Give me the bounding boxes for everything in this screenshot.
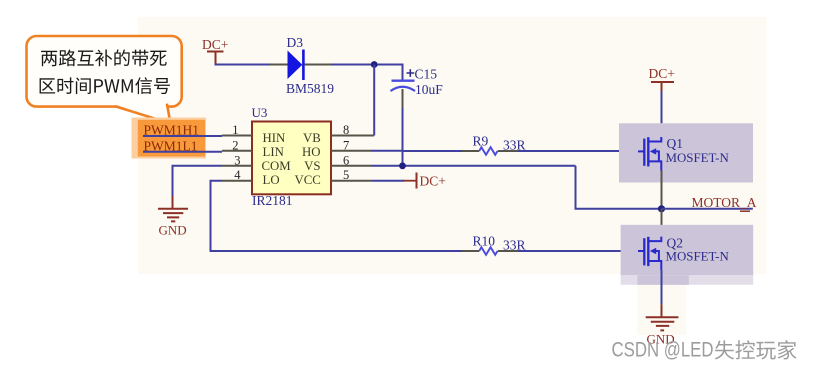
svg-text:2: 2: [232, 138, 238, 152]
U3 pin 6 VS: [304, 153, 371, 173]
svg-text:MOSFET-N: MOSFET-N: [666, 249, 730, 263]
wire: MOTOR_A net stub: [662, 209, 753, 211]
ground GND (below Q2): [646, 304, 679, 346]
svg-text:IR2181: IR2181: [252, 193, 293, 208]
net label MOTOR_A: [692, 195, 757, 210]
U3 pin 3 COM: [222, 153, 291, 173]
wire: R10 to Q2 gate: [498, 250, 638, 252]
designator label C15: [415, 67, 438, 82]
designator label Q1: [667, 136, 684, 151]
designator label Q2: [667, 235, 684, 250]
junction dot at C15/VS node: [399, 162, 406, 169]
resistor R9: [479, 147, 497, 155]
U3 pin 4 LO: [222, 168, 280, 187]
watermark CSDN @LED失控玩家: [612, 339, 797, 362]
transistor Q1 MOSFET-N symbol: [638, 137, 661, 171]
svg-text:BM5819: BM5819: [286, 81, 334, 96]
U3 pin 2 LIN: [222, 138, 284, 159]
svg-text:4: 4: [234, 168, 241, 182]
svg-text:DC+: DC+: [420, 174, 446, 189]
svg-text:7: 7: [343, 138, 349, 152]
transistor Q2 highlight box: [621, 225, 754, 285]
svg-text:3: 3: [234, 153, 240, 167]
svg-text:HIN: HIN: [263, 131, 286, 145]
svg-text:Q2: Q2: [667, 235, 684, 250]
designator label D3: [287, 35, 304, 50]
wire: net PWM1H1 to U3 pin 1: [143, 135, 222, 137]
svg-text:U3: U3: [252, 105, 268, 120]
wire: C15 bottom plate down to VS net junction: [402, 89, 404, 166]
svg-text:COM: COM: [262, 159, 291, 173]
ground GND (left): [158, 196, 188, 238]
wire: U3 pin 4 LO down and right to R10: [211, 181, 480, 251]
wire: MOTOR_A node down to Q2 drain: [661, 209, 663, 242]
annotation text line 2: 区时间PWM信号: [40, 77, 170, 94]
svg-text:LO: LO: [263, 173, 280, 187]
svg-text:DC+: DC+: [202, 37, 228, 52]
junction dot at D3/C15/VB node: [371, 61, 378, 68]
svg-text:VB: VB: [303, 131, 321, 145]
value label 10uF: [415, 82, 443, 97]
wire: Q1 source down to MOTOR_A node: [661, 171, 663, 209]
power port DC+ (above Q1): [649, 66, 675, 91]
svg-text:CSDN @LED: CSDN @LED: [612, 339, 714, 362]
svg-text:DC+: DC+: [649, 66, 675, 81]
U3 pin 5 VCC: [294, 168, 372, 187]
power port DC+ (at VCC pin 5): [403, 173, 446, 189]
value label IR2181: [252, 193, 293, 208]
svg-text:GND: GND: [159, 223, 187, 238]
power port DC+ (top left): [202, 37, 228, 65]
svg-text:PWM1L1: PWM1L1: [144, 138, 198, 153]
transistor Q1 highlight box: [619, 123, 753, 182]
wire: net PWM1L1 to U3 pin 2: [143, 151, 222, 153]
value label 33R: [503, 237, 526, 252]
wire: D3 cathode to C15 top, with junction to U3 pin 8: [305, 64, 403, 81]
wire: U3 pin 7 HO to R9: [371, 150, 479, 152]
net label PWM1H1: [144, 123, 200, 138]
annotation text line 1: 两路互补的带死: [41, 49, 167, 66]
wire: DC+ to D3 anode: [215, 64, 289, 66]
svg-text:10uF: 10uF: [415, 82, 443, 97]
value label BM5819: [286, 81, 334, 96]
wire: riser from VB pin 8 up to D3 cathode node: [373, 65, 375, 136]
wire: U3 pin 6 VS to MOTOR_A node: [371, 166, 662, 209]
svg-text:C15: C15: [415, 67, 438, 82]
value label MOSFET-N (Q2): [666, 249, 730, 263]
svg-text:VCC: VCC: [294, 173, 320, 187]
wire: U3 pin 5 VCC to DC+: [372, 180, 404, 182]
wire: U3 pin 3 COM to ground: [173, 166, 223, 197]
svg-text:MOTOR_A: MOTOR_A: [692, 195, 757, 210]
schematic canvas background: [138, 17, 766, 335]
wire: R9 to Q1 gate: [498, 150, 638, 152]
svg-text:MOSFET-N: MOSFET-N: [666, 151, 730, 165]
svg-text:D3: D3: [287, 35, 304, 50]
transistor Q2 MOSFET-N symbol: [638, 237, 661, 271]
svg-text:PWM1H1: PWM1H1: [144, 123, 200, 138]
op-amp/driver IC U3 IR2181 body: [252, 122, 331, 195]
wire: Q2 source down to ground: [661, 270, 663, 304]
value label 33R: [503, 137, 526, 152]
designator label U3: [252, 105, 268, 120]
svg-text:Q1: Q1: [667, 136, 684, 151]
svg-text:6: 6: [343, 153, 349, 167]
svg-text:R9: R9: [473, 133, 489, 148]
U3 pin 7 HO: [302, 138, 371, 159]
resistor R10: [479, 247, 497, 255]
svg-text:VS: VS: [304, 159, 320, 173]
value label MOSFET-N (Q1): [666, 151, 730, 165]
capacitor C15 symbol (polarized): [391, 69, 416, 91]
U3 pin 8 VB: [303, 123, 374, 145]
svg-text:LIN: LIN: [263, 145, 284, 159]
svg-text:8: 8: [343, 123, 349, 137]
net label PWM1L1: [144, 138, 198, 153]
svg-text:R10: R10: [473, 233, 496, 248]
annotation callout bubble: [27, 36, 182, 124]
junction dot at MOTOR_A node: [658, 205, 665, 212]
svg-text:HO: HO: [302, 145, 320, 159]
wire: DC+ down to Q1 drain: [661, 91, 663, 138]
designator label R10: [473, 233, 496, 248]
designator label R9: [473, 133, 489, 148]
diode D3 symbol: [288, 50, 304, 81]
svg-text:5: 5: [343, 168, 349, 182]
U3 pin 1 HIN: [222, 123, 285, 145]
net label highlight box (PWM1H1/PWM1L1): [132, 118, 207, 159]
svg-text:1: 1: [232, 123, 238, 137]
